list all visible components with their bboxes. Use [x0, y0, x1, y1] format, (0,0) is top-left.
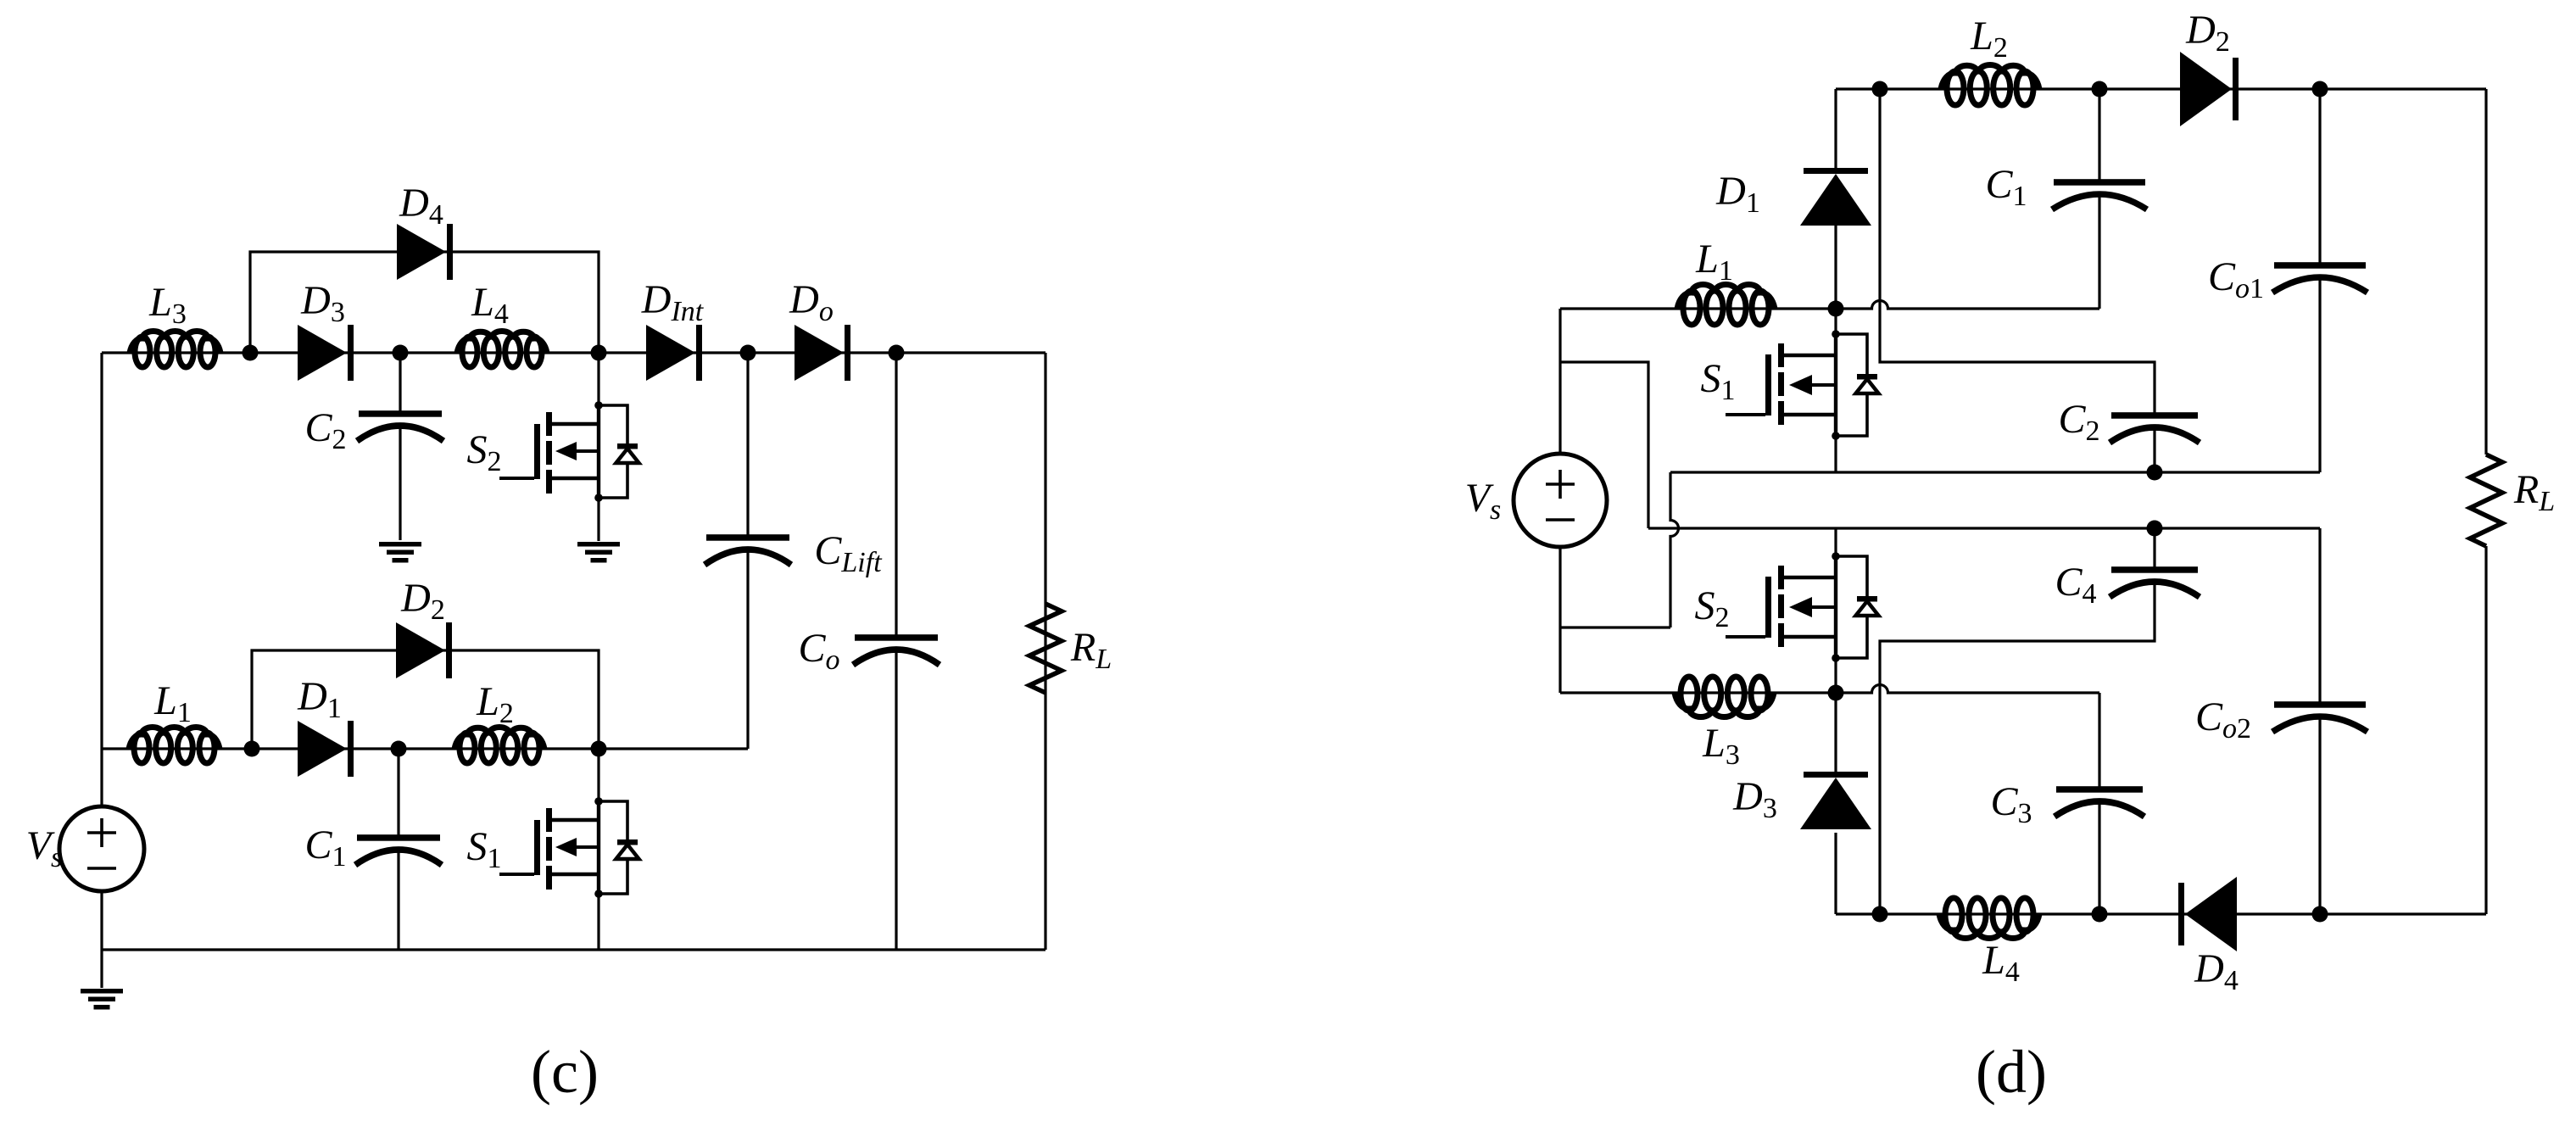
wire: D3 to bottom rail — [1834, 833, 1837, 914]
node N4 (DInt/CLift/Do) — [740, 345, 756, 361]
inductor L1 (d) — [1677, 285, 1775, 326]
wire: circuit (d) top rail — [1836, 87, 2486, 90]
capacitor C2 — [357, 410, 443, 441]
wire: source minus link — [1560, 626, 1670, 628]
diode D1 — [298, 721, 354, 777]
wire: Co2 bottom connection — [2318, 717, 2321, 914]
wire: L1 rail — [1560, 307, 1836, 310]
node D (D2/Co1/RL) — [2312, 81, 2328, 98]
wire: C3 top vertical — [2098, 693, 2100, 789]
wire: L3 rail — [1560, 691, 1836, 694]
diode D4 (d) — [2178, 877, 2237, 951]
node N5 (Do/Co/RL) — [889, 345, 905, 361]
ground below S2 — [577, 542, 620, 563]
capacitor Co1 — [2272, 262, 2367, 293]
diode D1 (d) — [1800, 168, 1871, 226]
capacitor CLift — [705, 534, 791, 565]
node M2 (D1/C1/L2) — [391, 741, 407, 757]
wire: node J2 to C3 top (hop over B2) — [1836, 685, 2099, 694]
wire: Vs top vertical — [1558, 309, 1561, 455]
inductor L4 (d) — [1939, 898, 2039, 939]
wire: rail-1 to source minus (hop over rail-2) — [1670, 472, 1679, 627]
wire: C2 to ground lower — [399, 426, 401, 540]
wire: S1 source to bottom rail — [597, 894, 599, 950]
inductor L3 (d) — [1675, 677, 1774, 717]
transistor S1 (d) — [1726, 330, 1879, 440]
wire: C1 bottom vertical — [2098, 194, 2100, 309]
ground below C2 — [379, 542, 421, 563]
wire: D2 branch — [252, 650, 599, 749]
diode D3 — [298, 325, 354, 381]
capacitor Co — [853, 634, 940, 665]
transistor S1 — [499, 797, 639, 898]
wire: bottom rail — [102, 948, 1045, 951]
diode D4 — [397, 224, 453, 280]
wire: S2 drain from rail-2 — [1834, 528, 1837, 556]
wire: C-Lift lower connection — [746, 549, 749, 749]
wire: D4 branch — [250, 252, 599, 353]
node B (top rail / C2 branch) — [1872, 81, 1888, 98]
wire: Co2 vertical upper — [2318, 528, 2321, 702]
voltage source Vs — [59, 806, 144, 891]
wire: S2 source to node J2 — [1834, 658, 1837, 693]
node M3 (L2/D2/S1) — [591, 741, 607, 757]
diode DInt — [646, 325, 702, 381]
wire: Co lower connection — [895, 650, 897, 950]
wire: D1 branch vertical — [1834, 89, 1837, 170]
wire: S1 source to rail-1 — [1834, 436, 1837, 472]
inductor L3 — [130, 331, 220, 367]
svg-text:(d): (d) — [1976, 1038, 2047, 1106]
capacitor C3 (d) — [2055, 786, 2144, 817]
transistor S2 (d) — [1726, 552, 1879, 662]
wire: C1 lower connection — [397, 850, 399, 950]
wire: circuit (c) middle rail — [102, 747, 748, 750]
wire: Co1 vertical upper — [2318, 89, 2321, 263]
wire: left vertical from top rail to source — [100, 353, 103, 805]
wire: source to bottom rail — [100, 893, 103, 988]
wire: S2 source to ground — [597, 498, 599, 541]
wire: D1 to node J1 — [1834, 226, 1837, 309]
wire: C3 bottom connection — [2098, 801, 2100, 914]
node B2-bottom rail — [1872, 906, 1888, 923]
node N3 (L4/D4/S2/DInt) — [591, 345, 607, 361]
node N1 (L3/D3/D4) — [243, 345, 259, 361]
inductor L2 — [454, 728, 544, 764]
diode D3 (d) — [1800, 772, 1871, 829]
node N2 (D3/C2/L4) — [393, 345, 409, 361]
node C4-rail2 — [2147, 521, 2163, 537]
ground below source — [81, 989, 123, 1010]
transistor S2 — [499, 401, 639, 502]
wire: circuit (c) top rail — [102, 351, 1045, 354]
diode D2 — [396, 622, 452, 678]
node J2 (L3/S2/D3) — [1828, 685, 1844, 701]
capacitor C2 (d) — [2110, 412, 2200, 443]
capacitor C4 (d) — [2110, 566, 2200, 597]
wire: S1 drain stub — [1834, 309, 1837, 334]
wire: rail-2 — [1648, 527, 2320, 529]
resistor RL — [1029, 604, 1062, 693]
capacitor Co2 — [2272, 701, 2367, 732]
node C2-rail1 — [2147, 465, 2163, 481]
inductor L4 — [457, 332, 547, 368]
node J1 (L1/D1/S1) — [1828, 301, 1844, 317]
voltage source Vs (d) — [1514, 454, 1607, 547]
wire: rail-1 — [1670, 471, 2320, 473]
diode D2 (d) — [2180, 52, 2239, 126]
diode Do — [795, 325, 850, 381]
svg-text:(c): (c) — [531, 1038, 599, 1106]
wire: C1 top vertical — [2098, 89, 2100, 180]
node C (L2/D2/C1) — [2092, 81, 2108, 98]
wire: load branch right vertical — [2484, 89, 2487, 455]
wire: Co1 bottom connection — [2318, 277, 2321, 472]
capacitor C1 (d) — [2052, 179, 2147, 209]
wire: C2 bottom connection — [2153, 426, 2155, 472]
wire: node J1 to C1 bottom (hop over B) — [1836, 301, 2099, 310]
wire: load branch right side — [1044, 353, 1046, 950]
wire: C-Lift upper connection — [746, 353, 749, 538]
node Co2-bottom rail — [2312, 906, 2328, 923]
wire: C4 top connection — [2153, 528, 2155, 568]
resistor RL (d) — [2470, 455, 2502, 546]
node C3-bottom rail — [2092, 906, 2108, 923]
wire: D3 to node J2 — [1834, 693, 1837, 772]
wire: C1 upper connection — [397, 749, 399, 839]
wire: S2 drain connection — [597, 353, 599, 405]
wire: Vs bottom vertical — [1558, 546, 1561, 693]
node M1 (L1/D1/D2) — [244, 741, 260, 757]
wire: Co upper connection — [895, 353, 897, 639]
wire: C2 to ground upper — [399, 353, 401, 415]
wire: circuit (d) bottom rail — [1836, 912, 2486, 915]
inductor L2 (d) — [1941, 65, 2039, 105]
wire: Vs plus branch — [1560, 362, 1648, 528]
wire: vertical B from top rail — [1880, 89, 2155, 415]
wire: S1 drain connection — [597, 749, 599, 801]
inductor L1 — [129, 727, 220, 763]
wire: C4 bottom to vertical B2 — [1880, 582, 2155, 914]
capacitor C1 — [355, 834, 442, 865]
wire: load branch lower vertical — [2484, 546, 2487, 914]
